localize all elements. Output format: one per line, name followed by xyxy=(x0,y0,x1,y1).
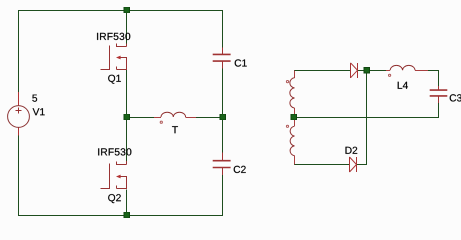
wire C1 to mid node xyxy=(222,69,224,118)
label D2 xyxy=(346,147,358,154)
secondary winding 2 phase dot xyxy=(286,125,288,127)
value label 5 (V1) xyxy=(32,95,37,102)
label Q1 xyxy=(108,75,121,84)
secondary winding 1 phase dot xyxy=(286,81,288,83)
transformer T secondary winding 2 xyxy=(290,120,294,165)
wire riser D2 to rectifier node xyxy=(366,71,368,165)
transistor Q2 (IRF530 MOSFET) xyxy=(101,161,127,189)
wire rectifier node to L4 xyxy=(367,70,387,72)
wire D2 cathode to riser xyxy=(357,164,367,166)
wire C2 to bottom rail xyxy=(222,175,224,216)
T primary phase dot xyxy=(160,121,162,123)
wire mid node to C2 xyxy=(222,117,224,153)
wire Q1 drain xyxy=(126,10,128,44)
wire left lower (V1 to bottom rail) xyxy=(18,136,20,217)
voltage source V1 xyxy=(8,92,30,136)
capacitor C3 xyxy=(430,86,448,103)
junction node C1/C2 mid / T right xyxy=(220,114,226,120)
wire center tap rail xyxy=(294,117,439,119)
inductor L4 xyxy=(386,65,428,70)
junction node half-bridge mid (Q1 source / Q2 drain / T) xyxy=(124,114,130,120)
value label IRF530 (Q1) xyxy=(97,33,130,40)
junction node top rail / Q1 drain xyxy=(124,7,130,13)
junction node rectifier output xyxy=(364,68,370,74)
junction node bottom rail / Q2 source xyxy=(124,212,130,218)
transistor Q1 (IRF530 MOSFET) xyxy=(101,44,127,71)
wire top rail xyxy=(18,10,223,12)
wire C3 bottom to center-tap rail xyxy=(438,103,440,118)
transformer T secondary winding 1 xyxy=(290,71,295,115)
label C2 xyxy=(234,166,246,173)
label V1 xyxy=(33,108,45,115)
wire right col: top rail to C1 xyxy=(222,10,224,48)
wire mid node to Q2 drain xyxy=(126,117,128,161)
label C3 xyxy=(450,94,461,101)
capacitor C2 xyxy=(213,153,231,175)
diode D2 xyxy=(350,157,357,172)
label L4 xyxy=(398,82,408,89)
wire L4 to output corner xyxy=(428,70,439,72)
label T xyxy=(172,126,178,133)
diode D1 xyxy=(351,63,358,78)
capacitor C1 xyxy=(213,48,231,69)
transformer T primary winding xyxy=(154,112,196,117)
Q2 arrow head xyxy=(116,175,121,179)
wire Q1 source to mid node xyxy=(126,70,128,117)
wire output corner down to C3 xyxy=(438,71,440,87)
wire Q2 source to bottom rail xyxy=(126,190,128,216)
wire D1 cathode to rectifier node xyxy=(358,70,367,72)
value label IRF530 (Q2) xyxy=(98,148,131,155)
wire secondary winding1 top to D1 anode xyxy=(294,70,351,72)
wire T primary right to mid-right node xyxy=(196,117,223,119)
Q1 arrow head xyxy=(116,56,121,60)
junction node center tap xyxy=(291,114,297,120)
wire left upper (top rail to V1) xyxy=(18,10,20,92)
L4 phase dot xyxy=(389,74,391,76)
wire mid node to T primary left xyxy=(127,117,154,119)
label Q2 xyxy=(108,194,121,203)
label C1 xyxy=(235,59,247,66)
wire bottom rail xyxy=(18,215,223,217)
wire secondary winding2 bottom to D2 anode xyxy=(294,164,350,166)
